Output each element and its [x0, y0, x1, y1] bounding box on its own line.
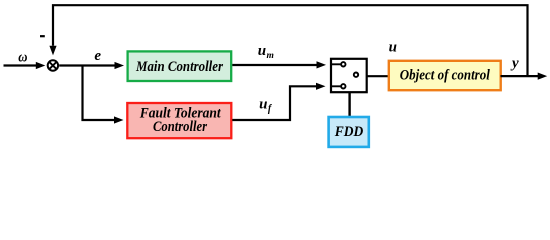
svg-text:y: y: [510, 55, 519, 71]
svg-text:Main Controller: Main Controller: [135, 59, 223, 75]
svg-text:ω: ω: [18, 49, 27, 65]
svg-text:Controller: Controller: [153, 119, 207, 135]
summing junction: [48, 60, 58, 70]
svg-text:e: e: [94, 48, 101, 64]
wire: error signal e to Main Controller: [59, 62, 124, 69]
wire: u_f from Fault Tolerant Controller to switch: [232, 83, 325, 120]
wire: reference input omega: [4, 62, 46, 69]
wire: switch to FDD: [348, 92, 350, 117]
wire: branch from e down to Fault Tolerant Controller: [83, 66, 124, 124]
block: FDD: [329, 117, 369, 147]
label minus sign: [40, 35, 45, 37]
arrowhead: feedback into summing junction: [49, 46, 56, 56]
svg-text:FDD: FDD: [334, 124, 364, 140]
switch block: [331, 59, 367, 92]
switch contact lower (u_f): [341, 84, 345, 88]
block: Fault Tolerant Controller: [127, 103, 231, 138]
wire: u_m from Main Controller to switch: [232, 61, 326, 68]
wire: feedback loop from output back to summing junction: [53, 5, 528, 75]
svg-text:uf: uf: [259, 97, 273, 115]
svg-text:um: um: [258, 43, 274, 61]
svg-text:u: u: [389, 40, 397, 56]
block: Object of control: [389, 61, 501, 90]
wire: u from switch to Object of control: [367, 75, 389, 77]
block: Main Controller: [128, 51, 232, 81]
svg-text:Object of control: Object of control: [400, 67, 491, 83]
switch contact stub lower: [332, 85, 341, 87]
wire: output y: [501, 73, 548, 80]
switch contact upper (u_m): [341, 62, 345, 66]
switch contact stub upper: [332, 63, 341, 65]
switch contact common: [354, 73, 358, 77]
